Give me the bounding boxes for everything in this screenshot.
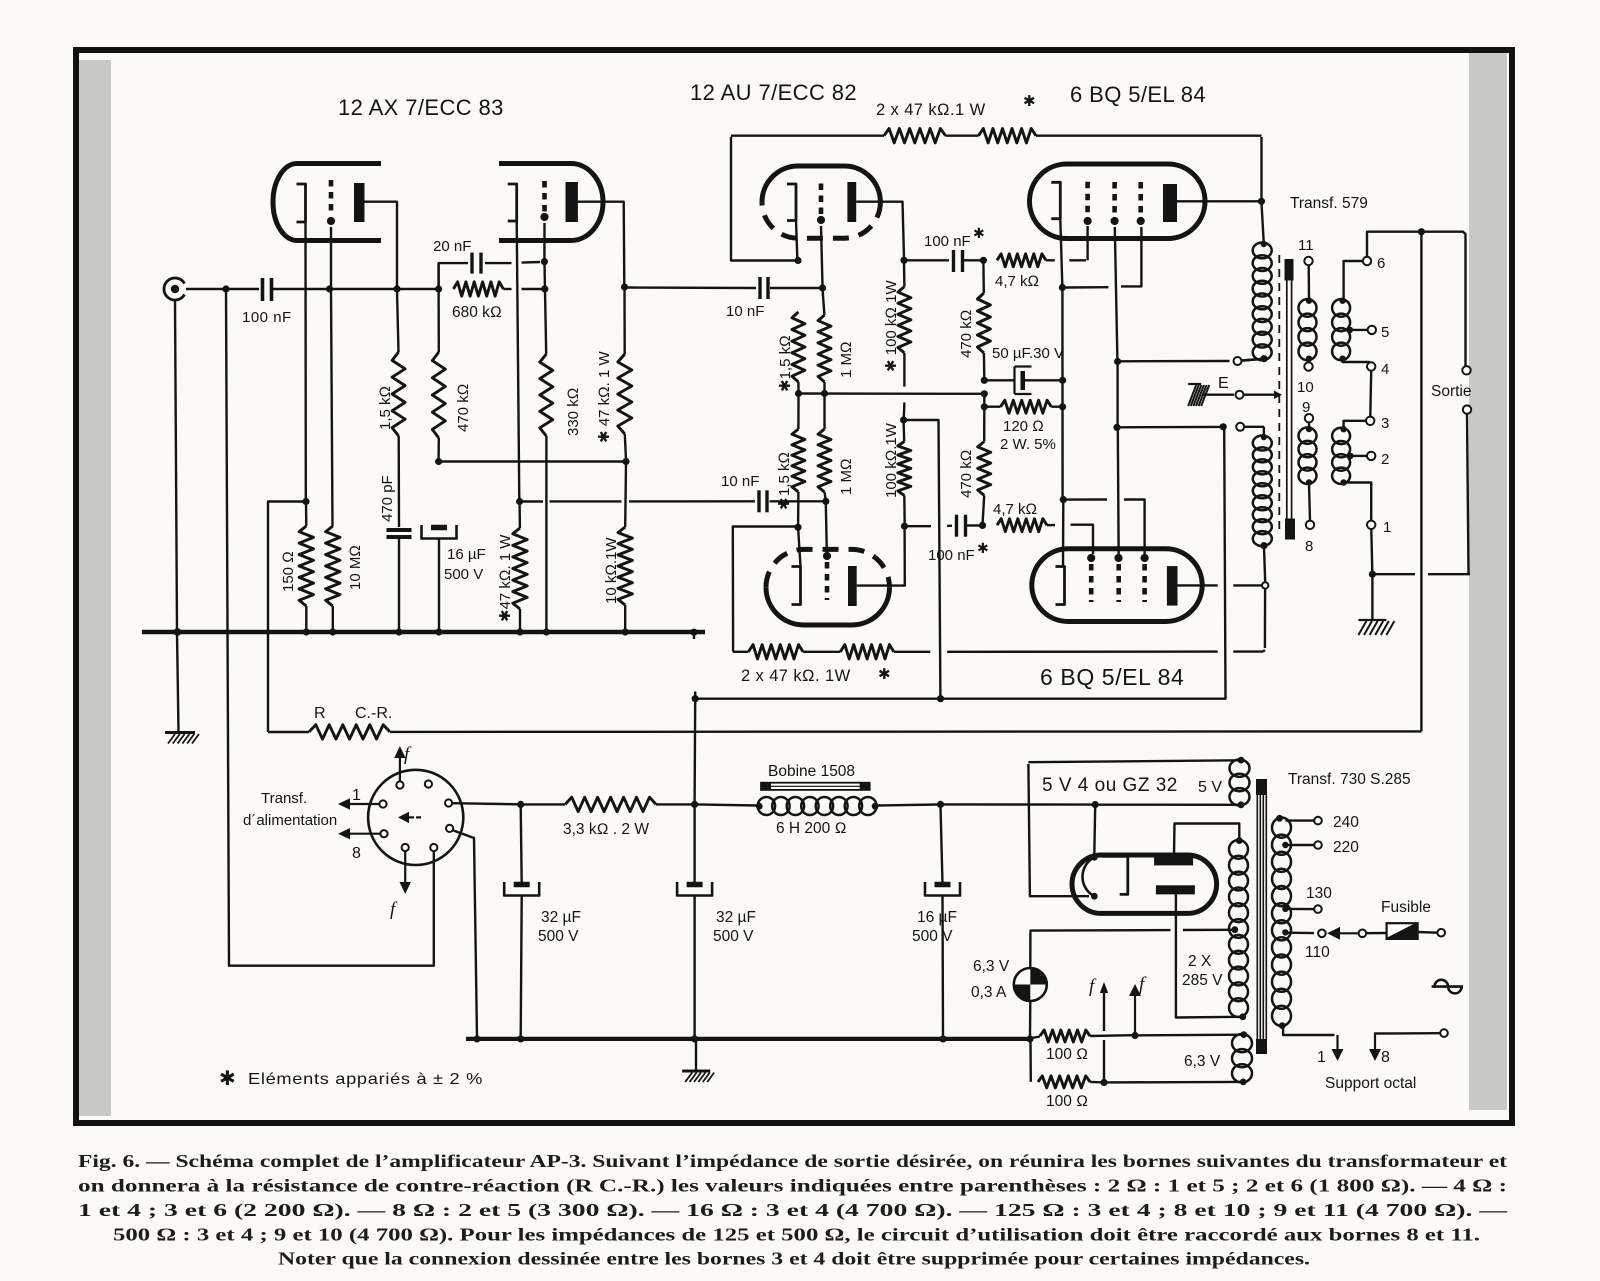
- capacitor C2 20nF: [470, 253, 473, 274]
- wire octal pin to B+ rail: [452, 803, 519, 804]
- wire anode V4 to transformer with hop: [1178, 584, 1218, 586]
- wire anode node to C9 with hop: [907, 525, 932, 527]
- svg-text:8: 8: [1381, 1049, 1390, 1066]
- wire B+ down from output stage: [693, 701, 696, 802]
- octal pins: [396, 781, 403, 788]
- node R4/C2 junction: [435, 285, 442, 292]
- tap 5: [1347, 327, 1353, 333]
- resistor R14 100k 1W plate load lower: [902, 422, 905, 442]
- svg-text:R: R: [314, 705, 326, 722]
- wire B+ jog to vertical: [905, 420, 940, 697]
- svg-text:Transf. 730 S.285: Transf. 730 S.285: [1288, 771, 1411, 788]
- ground bus main: [142, 630, 705, 635]
- svg-text:✱: ✱: [219, 1068, 236, 1090]
- resistor R25 47k 1W anode load V1b: [618, 354, 632, 434]
- svg-text:1 MΩ: 1 MΩ: [838, 458, 855, 495]
- terminal 3: [1366, 417, 1374, 425]
- choke L1 Bobine 1508 core: [761, 783, 870, 790]
- resistor R20 1M grid V2b: [818, 429, 831, 492]
- grid1 V3 arrow: [1084, 217, 1092, 225]
- resistor R7 47k cathode V1b: [518, 503, 521, 528]
- transformer bottom 1 arrow: [1283, 1028, 1334, 1035]
- resistor R C.-R. feedback: [268, 731, 309, 733]
- grid2 V4 dashed: [1116, 564, 1121, 602]
- node input junction: [222, 285, 229, 292]
- grid3 V4 lead from cathode rail with hop: [1066, 498, 1108, 501]
- svg-text:Bobine 1508: Bobine 1508: [768, 763, 855, 780]
- B+ bootstrap rail top: [731, 134, 884, 136]
- grid V1b arrow: [540, 213, 548, 221]
- anode V1b plate: [566, 182, 578, 222]
- OPT primary upper winding: [1253, 243, 1272, 259]
- node rectifier cathode: [1092, 801, 1099, 808]
- svg-text:240: 240: [1333, 814, 1359, 831]
- choke L1 winding: [697, 804, 757, 805]
- screen tap wire: [1114, 358, 1121, 365]
- wire R4 to rail: [437, 438, 440, 460]
- svg-text:12 AU 7/ECC 82: 12 AU 7/ECC 82: [690, 80, 857, 105]
- resistor R15 470k upper: [982, 262, 985, 293]
- anode V2b plate: [848, 566, 857, 606]
- grid V2a dashed: [819, 184, 824, 216]
- grid1 V4 dashed: [1089, 564, 1094, 602]
- grid V2b lead: [826, 503, 827, 552]
- tap 130: [1282, 906, 1288, 912]
- node 50uF branch: [981, 377, 988, 384]
- svg-text:100 nF: 100 nF: [928, 547, 975, 564]
- svg-text:32 µF: 32 µF: [716, 909, 756, 926]
- svg-text:220: 220: [1333, 839, 1359, 856]
- svg-text:5 V 4 ou GZ 32: 5 V 4 ou GZ 32: [1042, 775, 1178, 796]
- wire lamp to bus: [1029, 1001, 1032, 1037]
- anode V5 bottom bar: [1156, 885, 1195, 894]
- node mid rail right end: [981, 390, 988, 397]
- svg-text:✱: ✱: [1023, 93, 1036, 110]
- wire C9 to node: [966, 524, 979, 526]
- wire R21 to grid1 V4 with hop: [1047, 524, 1055, 527]
- wire anode V2a to node: [856, 202, 904, 258]
- svg-text:50 µF.30 V: 50 µF.30 V: [992, 345, 1064, 362]
- wire fuse to mains terminal: [1418, 931, 1438, 934]
- wire to 5V winding bottom: [1097, 804, 1239, 806]
- grid V2a lead: [821, 226, 823, 286]
- node B+ supply left end: [692, 695, 699, 702]
- node anode V3 primary top: [1258, 198, 1265, 205]
- wire octal pin diagonal to bus: [453, 830, 477, 1038]
- svg-text:4: 4: [1381, 361, 1389, 378]
- resistor R3 1.5k: [392, 352, 405, 436]
- node B+ rail left: [517, 801, 524, 808]
- wire terminal 1 down to ground node: [1371, 529, 1372, 572]
- wire C5 to grid V2a: [770, 287, 820, 289]
- svg-text:100 nF: 100 nF: [242, 309, 292, 326]
- octal socket circle: [368, 770, 463, 865]
- svg-text:100 Ω: 100 Ω: [1046, 1093, 1088, 1110]
- right gray scan bar: [1469, 52, 1507, 1110]
- wire rail to R8: [624, 463, 627, 527]
- filament arrow fa: [1103, 1040, 1105, 1081]
- border frame: [76, 50, 1512, 1123]
- node grid V1b at C2: [541, 258, 548, 265]
- svg-text:Eléments appariés à ± 2 %: Eléments appariés à ± 2 %: [248, 1071, 483, 1088]
- grid V2b dashed: [825, 562, 830, 600]
- wire anode2 to HV bottom: [1175, 894, 1177, 1015]
- tap 110 with fuse: [1282, 929, 1288, 935]
- svg-text:1: 1: [352, 787, 361, 804]
- wire C3 to ground bus: [398, 537, 400, 632]
- wire to screen terminal: [1242, 359, 1263, 361]
- wire C1 to grid of V1a: [272, 288, 328, 290]
- node 120R branch: [981, 403, 988, 410]
- svg-text:11: 11: [1298, 237, 1314, 254]
- resistor R9 1.5k cathode V2a: [792, 312, 805, 382]
- E shield ground: [1188, 383, 1201, 385]
- grid2 V3 lead down: [1115, 227, 1118, 360]
- resistor R16 4.7k grid stopper upper: [997, 254, 1046, 267]
- svg-text:2: 2: [1381, 451, 1389, 468]
- input connector J1: [164, 278, 185, 300]
- fuse F1: [1387, 923, 1418, 939]
- wire input shell to ground: [175, 300, 177, 631]
- feedback line to output: [390, 730, 1421, 733]
- wire Sortie lower to ground node with hop: [1428, 414, 1469, 574]
- wire 11 to coil: [1307, 265, 1310, 299]
- capacitor C8 50uF 30V: [986, 379, 1015, 381]
- filament V5 arc: [1091, 854, 1098, 861]
- wire to 470k node: [399, 288, 436, 290]
- svg-text:2 X: 2 X: [1188, 953, 1212, 970]
- node bus right end: [690, 629, 697, 636]
- svg-text:16 µF: 16 µF: [447, 546, 486, 563]
- wire anode1 to HV top: [1174, 824, 1239, 856]
- wire grid node to anode node: [332, 288, 394, 290]
- svg-text:4,7 kΩ: 4,7 kΩ: [995, 273, 1039, 290]
- resistor R10 1M grid V2a: [818, 315, 831, 382]
- resistor R1 150 ohm cathode: [305, 503, 308, 526]
- node cathode V1b / lower coupling rail: [516, 498, 523, 505]
- svg-text:1,5 kΩ: 1,5 kΩ: [377, 386, 394, 430]
- wire R15 to nodes: [983, 353, 986, 379]
- cathode V2a: [787, 184, 796, 221]
- node 470k/4.7k lower: [979, 522, 986, 529]
- OPT secondary coil 9-8: [1308, 422, 1310, 428]
- OPT core laminations: [1285, 259, 1294, 281]
- resistor R11 47k 1W upper a: [884, 129, 946, 143]
- capacitor C1 100nF input: [261, 278, 265, 301]
- grid3 V3 lead to cathode with hop: [1121, 227, 1141, 286]
- svg-text:1 MΩ: 1 MΩ: [838, 341, 855, 378]
- wire R16 to grid1 with hop: [1046, 259, 1055, 261]
- node 470k/4.7k upper: [980, 257, 987, 264]
- capacitor C12 16uF: [941, 806, 943, 884]
- node rail right end: [622, 458, 629, 465]
- wire coil bottom to terminal 1: [1344, 483, 1372, 521]
- svg-text:6 H 200 Ω: 6 H 200 Ω: [776, 820, 847, 837]
- ground symbol output: [1358, 619, 1386, 621]
- OPT secondary right coil 6-5-4: [1344, 261, 1363, 299]
- mid rail R9/R10 bottoms: [799, 392, 985, 395]
- svg-text:2 W. 5%: 2 W. 5%: [1000, 436, 1056, 453]
- OPT secondary right coil 3-2-1: [1332, 428, 1350, 444]
- wire R13 hop over rail to B+ jog: [903, 353, 905, 387]
- capacitor C9 100nF lower: [955, 515, 958, 537]
- svg-text:1 et 4 ; 3 et 6 (2 200 Ω). — 8: 1 et 4 ; 3 et 6 (2 200 Ω). — 8 Ω : 2 et …: [78, 1200, 1508, 1220]
- grid3 V4 arrow: [1141, 554, 1149, 562]
- rail wire 470k bottom to anode line: [439, 460, 626, 462]
- cathode V1b: [508, 184, 517, 221]
- resistor R13 100k 1W plate load upper: [903, 262, 906, 287]
- wire ground stem: [1371, 576, 1373, 620]
- svg-text:C.-R.: C.-R.: [355, 705, 392, 722]
- node B+ jog: [900, 416, 907, 423]
- wire B+ down to supply: [697, 429, 1226, 699]
- OPT secondary coil 11-10: [1299, 299, 1317, 317]
- 5V winding: [1238, 757, 1245, 764]
- svg-text:20 nF: 20 nF: [433, 238, 471, 255]
- svg-text:16 µF: 16 µF: [917, 909, 957, 926]
- svg-text:on donnera à la résistance de: on donnera à la résistance de contre-réa…: [78, 1176, 1507, 1196]
- tap 2: [1347, 453, 1353, 459]
- svg-text:8: 8: [1305, 538, 1313, 555]
- svg-text:6,3 V: 6,3 V: [1184, 1053, 1221, 1070]
- grid V1b dashed: [542, 181, 547, 212]
- svg-text:2 x 47 kΩ.1 W: 2 x 47 kΩ.1 W: [876, 101, 986, 119]
- wire C7 to grid V2b: [770, 500, 824, 502]
- wire coil to terminal 4: [1343, 359, 1372, 367]
- wire between R11 R12: [946, 134, 979, 136]
- power transformer core: [1256, 779, 1267, 795]
- tube V5 rectifier envelope: [1072, 855, 1217, 913]
- svg-text:1: 1: [1383, 519, 1391, 536]
- grid2 V3 arrow: [1111, 217, 1119, 225]
- mains primary winding: [1276, 815, 1283, 822]
- svg-text:2 x 47 kΩ. 1W: 2 x 47 kΩ. 1W: [741, 667, 851, 685]
- wire node down to R25: [623, 289, 626, 354]
- wire center tap to pilot lamp: [1183, 929, 1233, 932]
- wire anode node down to R3: [397, 291, 399, 352]
- svg-text:500 V: 500 V: [444, 566, 483, 583]
- svg-text:500 V: 500 V: [538, 928, 579, 945]
- svg-text:✱47 kΩ. 1 W: ✱47 kΩ. 1 W: [497, 534, 514, 622]
- tap 220: [1282, 842, 1288, 848]
- svg-text:470 kΩ: 470 kΩ: [455, 384, 472, 432]
- terminal 10: [1307, 360, 1310, 362]
- svg-text:✱: ✱: [878, 666, 891, 683]
- svg-text:Fig. 6. — Schéma complet de l’: Fig. 6. — Schéma complet de l’amplificat…: [78, 1151, 1507, 1171]
- capacitor C4 16uF 500V: [431, 525, 447, 531]
- svg-text:1: 1: [1317, 1049, 1326, 1066]
- resistor R18 120 ohm: [986, 406, 1001, 408]
- terminal B+ tap: [1236, 423, 1244, 431]
- resistor R17 470k lower: [978, 442, 991, 496]
- svg-text:9: 9: [1302, 399, 1310, 416]
- svg-text:Transf. 579: Transf. 579: [1290, 195, 1368, 212]
- wire choke to 16uF node: [875, 805, 938, 806]
- svg-text:470 kΩ: 470 kΩ: [958, 310, 975, 358]
- OPT core dashed line: [1278, 255, 1280, 534]
- wire R25 to rail: [625, 434, 626, 460]
- svg-text:8: 8: [352, 845, 361, 862]
- wire anode node to C5: [627, 286, 756, 289]
- capacitor C11 32uF second: [693, 806, 695, 884]
- terminal 9: [1305, 414, 1313, 422]
- cathode V1b lead down: [517, 221, 520, 500]
- HV winding 2x285V: [1236, 837, 1243, 844]
- bootstrap loop left: [733, 527, 796, 652]
- octal arrow f bottom: [404, 851, 406, 882]
- svg-text:500 Ω : 3 et 4 ; 9 et 10 (4 70: 500 Ω : 3 et 4 ; 9 et 10 (4 700 Ω). Pour…: [113, 1225, 1480, 1245]
- svg-text:10: 10: [1297, 379, 1314, 396]
- node primary lower bottom: [1260, 542, 1267, 549]
- svg-text:0,3 A: 0,3 A: [971, 984, 1007, 1001]
- grid3 V4 dashed: [1142, 564, 1147, 602]
- wire 5V feed left: [1028, 764, 1089, 896]
- resistor R21 4.7k grid stopper lower: [997, 519, 1047, 532]
- svg-text:3: 3: [1381, 415, 1389, 432]
- bootstrap vertical to anode circle: [1264, 589, 1267, 648]
- heater winding 6.3V: [1240, 1031, 1247, 1038]
- filament arrow fb: [1134, 996, 1136, 1034]
- grid V1a lead down to R2: [330, 227, 332, 287]
- capacitor C5 10nF: [758, 277, 761, 299]
- wire R5 to grid2 with hop: [503, 288, 511, 290]
- left gray scan bar: [79, 60, 111, 1116]
- wire 5V top: [1028, 760, 1239, 762]
- resistor R2 10M grid leak: [326, 526, 340, 606]
- grid V1b lead down to R6: [543, 223, 545, 260]
- svg-text:✱: ✱: [973, 225, 985, 241]
- svg-text:✱ 47 kΩ. 1 W: ✱ 47 kΩ. 1 W: [596, 351, 613, 443]
- capacitor C3 470pF: [387, 528, 412, 532]
- grid V2a arrow: [817, 216, 825, 224]
- svg-text:500 V: 500 V: [912, 928, 953, 945]
- wire 3 to lower right coil: [1344, 421, 1366, 428]
- node anode V1b coupling: [621, 283, 628, 290]
- node cathode/R9 top: [794, 257, 801, 264]
- resistor R19 1.5k cathode V2b: [792, 429, 805, 492]
- wire circle up to primary bottom: [1264, 547, 1265, 582]
- grid3 V3 arrow: [1137, 217, 1145, 225]
- svg-text:500 V: 500 V: [713, 928, 754, 945]
- node grid V2b: [822, 498, 829, 505]
- svg-text:10 nF: 10 nF: [726, 303, 764, 320]
- octal arrow pin8: [350, 833, 380, 835]
- wire input to C1: [186, 288, 259, 290]
- svg-text:680 kΩ: 680 kΩ: [452, 304, 502, 321]
- anode V2a plate: [847, 182, 856, 222]
- svg-text:100 nF: 100 nF: [924, 233, 971, 250]
- svg-text:100 Ω: 100 Ω: [1046, 1046, 1088, 1063]
- node B+ supply at 16uF: [937, 695, 944, 702]
- capacitor C6 100nF upper: [952, 250, 955, 272]
- node grid V1a: [326, 285, 333, 292]
- node cathode V1a / feedback jog: [302, 498, 309, 505]
- capacitor C10 32uF first: [521, 806, 522, 884]
- wire grid to R10: [823, 290, 825, 315]
- grid V1a dashed: [329, 180, 334, 216]
- resistor R8 10k 1W: [618, 527, 632, 605]
- svg-text:130: 130: [1306, 885, 1332, 902]
- bootstrap line 2x47k: [733, 651, 748, 653]
- cathode V4: [1056, 567, 1065, 605]
- wire to fuse: [1366, 932, 1386, 935]
- octal arrow f top: [399, 758, 401, 781]
- svg-text:✱ 100 kΩ 1W: ✱ 100 kΩ 1W: [883, 280, 900, 372]
- node B+ line: [1113, 424, 1120, 431]
- svg-text:12 AX 7/ECC 83: 12 AX 7/ECC 83: [338, 95, 504, 120]
- svg-text:Fusible: Fusible: [1381, 899, 1431, 916]
- node anode V2a: [900, 257, 907, 264]
- wire rail to transformer: [1036, 134, 1262, 136]
- svg-text:6,3 V: 6,3 V: [973, 958, 1010, 975]
- svg-text:Sortie: Sortie: [1431, 383, 1472, 400]
- svg-text:Transf.: Transf.: [261, 790, 307, 807]
- node cathode V3: [1059, 284, 1066, 291]
- wire down to R17: [983, 395, 985, 405]
- wire anode V1a to node: [365, 202, 398, 287]
- terminal Sortie upper: [1462, 366, 1470, 374]
- svg-text:6: 6: [1377, 255, 1385, 272]
- resistor R5 680k: [453, 282, 503, 296]
- svg-text:100 kΩ.1W: 100 kΩ.1W: [883, 422, 900, 498]
- wire R17 to lower chain node: [983, 495, 985, 523]
- wire E to core: [1203, 394, 1234, 396]
- wire cathode loop corner: [731, 137, 798, 261]
- tap 240: [1286, 819, 1314, 821]
- resistor R4 470k: [437, 263, 439, 289]
- svg-text:5: 5: [1381, 324, 1389, 341]
- wire anode V2b to node: [857, 528, 905, 586]
- svg-text:1,5 kΩ: 1,5 kΩ: [776, 452, 793, 496]
- svg-text:10 kΩ.1W: 10 kΩ.1W: [603, 537, 620, 604]
- HV center tap: [1231, 926, 1238, 933]
- wire anode node to C6: [906, 259, 949, 261]
- svg-text:✱: ✱: [776, 497, 793, 510]
- cathode V2a lead: [796, 221, 797, 259]
- anode V1a plate: [354, 183, 365, 222]
- cathode V3 lead: [1060, 219, 1062, 285]
- wire R9 to mid rail: [797, 382, 799, 394]
- svg-text:10 nF: 10 nF: [721, 473, 759, 490]
- grid1 V4 arrow: [1087, 554, 1095, 562]
- wire R3 to C3: [398, 436, 401, 527]
- terminal 6: [1363, 257, 1371, 265]
- wire anode V1b right and down: [578, 202, 624, 285]
- wire terminal 6 strap up to output node: [1367, 232, 1466, 366]
- svg-text:d´alimentation: d´alimentation: [243, 812, 337, 829]
- wire shield line down from input node to octal loop: [226, 289, 434, 966]
- tube V1a envelope: [273, 164, 381, 241]
- wire anode V3 to transformer: [1177, 200, 1260, 202]
- arrow to 110: [1340, 932, 1358, 934]
- ground symbol bottom: [695, 1040, 697, 1070]
- svg-text:120 Ω: 120 Ω: [1003, 418, 1044, 435]
- cathode V2b bracket: [792, 567, 801, 605]
- tube V3 envelope: [1030, 164, 1206, 239]
- svg-text:6 BQ 5/EL 84: 6 BQ 5/EL 84: [1070, 82, 1206, 107]
- svg-text:✱1,5 kΩ: ✱1,5 kΩ: [777, 335, 794, 392]
- feedback vertical: [1420, 234, 1422, 732]
- wire 20nF branch left: [439, 263, 468, 289]
- svg-text:3,3 kΩ . 2 W: 3,3 kΩ . 2 W: [563, 821, 649, 838]
- cathode V1a lead down: [304, 222, 307, 500]
- wire heater bottom: [1090, 1081, 1102, 1084]
- terminal screen tap: [1234, 357, 1242, 365]
- svg-text:470 pF: 470 pF: [379, 475, 396, 522]
- anode V5 top bar: [1154, 856, 1193, 865]
- svg-text:6 BQ 5/EL 84: 6 BQ 5/EL 84: [1040, 664, 1184, 690]
- cathode rail 6BQ5s: [1061, 289, 1064, 498]
